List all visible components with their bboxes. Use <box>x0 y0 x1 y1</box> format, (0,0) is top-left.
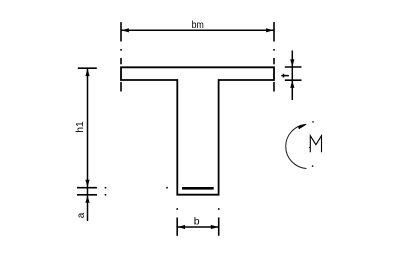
moment arrowhead (pointing right at top of arc) <box>298 124 307 129</box>
T-beam cross-section outline <box>121 67 274 194</box>
dimension b: left arrow <box>178 225 186 229</box>
dimension t: outside arrow above (pointing down) <box>290 59 294 67</box>
svg-text:h1: h1 <box>74 121 86 133</box>
dimension bm: extension line left (dash-dot) <box>120 22 122 91</box>
svg-text:bm: bm <box>192 19 204 31</box>
reinforcement bar (thick line at web bottom) <box>182 187 214 190</box>
dimension b: dimension line <box>177 226 219 228</box>
dimension bm: right arrow <box>266 28 274 32</box>
dimension t: outside arrow below (pointing up) <box>290 80 294 88</box>
moment label "M" <box>309 136 322 153</box>
dimension a: lower extension line (at web bottom, dash-dot) <box>77 194 106 196</box>
dimension h1: bottom arrow (pointing down) <box>85 180 89 188</box>
dimension h1: dimension line (vertical) <box>87 68 89 221</box>
moment arc end dot (top) <box>312 121 314 123</box>
dimension t: top extension line <box>285 66 302 68</box>
dimension t: label "t" (rotated) <box>281 74 289 78</box>
svg-text:b: b <box>194 215 200 227</box>
dimension h1: top extension line <box>78 67 97 69</box>
dimension bm: dimension line <box>121 29 274 31</box>
dimension bm: left arrow <box>121 28 128 32</box>
svg-text:a: a <box>76 212 87 218</box>
dimension h1: top arrow (pointing up) <box>85 69 89 77</box>
dimension b: left extension line (dash-dot) <box>176 208 178 236</box>
moment arc end dot (bottom) <box>312 165 314 167</box>
dimension b: right extension line (dash-dot) <box>218 208 220 236</box>
dimension a: outside arrow below (pointing up) <box>85 195 89 203</box>
dimension t: vertical dimension line <box>291 51 293 101</box>
moment arc <box>286 124 307 168</box>
dimension a: upper extension line (at rebar level, dash-dot) <box>77 187 168 189</box>
dimension t: bottom extension line <box>285 79 302 81</box>
dimension b: right arrow <box>211 225 219 229</box>
dimension bm: extension line right (dash-dot) <box>273 22 275 91</box>
